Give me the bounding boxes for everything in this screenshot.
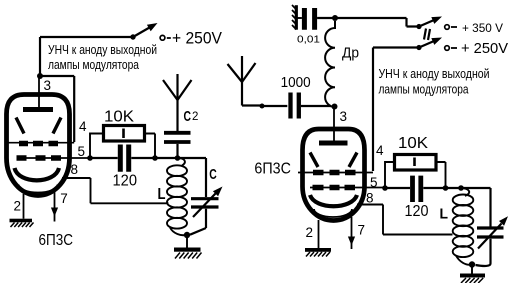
pin 7 heater lead with arrow (right): [351, 217, 353, 249]
svg-text:8: 8: [71, 162, 79, 177]
node: antenna wire dot (right): [260, 104, 265, 109]
svg-text:7: 7: [60, 191, 68, 206]
capacitor 120 (right): [385, 187, 446, 189]
wire: cap to supply node (right): [317, 17, 406, 19]
svg-text:7: 7: [358, 223, 366, 238]
svg-text:УНЧ к аноду выходной: УНЧ к аноду выходной: [48, 42, 157, 57]
svg-text:+ 250V: + 250V: [461, 40, 508, 57]
pin 2 lead (right): [318, 220, 320, 248]
switch SA1 terminal tick (left): [167, 37, 171, 39]
switch SA1 terminal circle (left): [160, 35, 165, 40]
resistor R2 10K (right): [385, 162, 395, 188]
wire: cathode pin 8 to coil tap (left): [62, 178, 169, 203]
control grid g1 row (left tube): [18, 157, 90, 159]
ground symbol (left tank): [186, 235, 188, 248]
switch SA1 pivot dot (left): [130, 34, 135, 39]
svg-text:0,01: 0,01: [297, 34, 320, 46]
svg-text:C: C: [209, 167, 217, 183]
svg-text:8: 8: [366, 191, 374, 206]
coil L (left): [178, 158, 185, 166]
svg-text:C: C: [184, 109, 192, 125]
node: anode supply junction (left): [37, 73, 43, 79]
svg-text:лампы модулятора: лампы модулятора: [379, 82, 470, 97]
switch SA2a lever: [419, 20, 434, 26]
wire: screen feed to pin 4 (left): [40, 76, 74, 142]
anode plate (left tube): [23, 107, 53, 112]
node: RF supply junction (right): [332, 15, 338, 21]
glass bottom arc (right tube): [314, 209, 352, 217]
svg-text:5: 5: [370, 175, 378, 190]
capacitor 0,01 (right): [296, 17, 302, 19]
resistor R1 10K (left): [90, 134, 104, 159]
chassis wall (right): [295, 5, 298, 30]
cathode (right tube): [310, 195, 357, 206]
switch SA2b terminal circle: [445, 46, 450, 51]
cathode (left tube): [15, 168, 60, 180]
capacitor 120 (left): [90, 157, 155, 159]
wire: antenna to coupling cap (right): [242, 104, 287, 107]
svg-text:10K: 10K: [104, 109, 135, 126]
capacitor 1000 (right): [291, 93, 299, 119]
wire: anode lead pin 3 (right): [333, 107, 335, 144]
ground symbol (left tube): [10, 219, 33, 223]
variable capacitor C (left): [191, 199, 219, 207]
wire: tank top to variable capacitor (left): [178, 158, 207, 197]
svg-text:2: 2: [306, 225, 314, 240]
coil L (right): [461, 188, 469, 196]
screen grid g2 row (left tube): [6, 142, 75, 144]
switch gang link (right): [424, 29, 430, 41]
switch SA2b lever: [419, 41, 434, 47]
svg-text:10K: 10K: [398, 135, 429, 152]
glass bottom arc (left tube): [19, 185, 58, 193]
svg-text:120: 120: [405, 203, 429, 220]
wire: to tank (right): [446, 188, 491, 227]
node: anode junction (right): [332, 104, 338, 110]
variable capacitor C (right): [477, 228, 504, 237]
beam plates (right tube): [310, 153, 357, 168]
svg-text:3: 3: [340, 109, 348, 124]
node: tank bottom junction (left): [184, 232, 190, 238]
ground symbol (right tube): [305, 248, 331, 252]
wire: +250V feed top (left): [40, 36, 133, 38]
node: tank top junction (right): [458, 185, 464, 191]
switch SA2b pivot dot (+250V): [416, 45, 421, 50]
choke Др (right): [325, 21, 335, 107]
wire: cathode pin 8 to coil tap (right): [357, 205, 453, 235]
svg-text:УНЧ к аноду выходной: УНЧ к аноду выходной: [379, 66, 490, 81]
switch SA2a terminal circle: [445, 25, 450, 30]
wire: anode lead pin 3 (left): [38, 76, 40, 110]
node: R/C right junction (left): [152, 155, 158, 161]
switch SA1 lever arrowhead (left): [147, 23, 158, 31]
tube V1 6П3С envelope (left): [7, 95, 70, 196]
svg-text:+ 350 V: + 350 V: [462, 21, 503, 35]
wire: supply drop (left): [39, 37, 41, 76]
svg-text:6П3С: 6П3С: [39, 232, 74, 249]
switch SA2a pivot dot (+350V): [416, 24, 421, 29]
node: tank top junction (left): [175, 155, 181, 161]
pin 7 heater lead with arrow (left): [54, 191, 56, 222]
svg-text:Др: Др: [342, 46, 359, 62]
node: grid junction pin 5 (left): [87, 155, 93, 161]
node: grid junction pin 5 (right): [382, 185, 388, 191]
antenna W1 (left): [176, 74, 178, 131]
wire: cap to anode node (right): [301, 105, 331, 107]
tube V2 6П3С envelope (right): [303, 129, 365, 221]
wire: step to switch (right): [407, 18, 420, 27]
svg-text:L: L: [440, 206, 449, 223]
svg-text:L: L: [158, 186, 166, 203]
wire: +250V to screen pin 4 (right): [373, 48, 419, 172]
svg-text:+ 250V: + 250V: [172, 30, 222, 48]
screen grid g2 row (right tube): [298, 172, 373, 174]
control grid g1 row (right tube): [310, 187, 385, 189]
svg-text:1000: 1000: [281, 75, 311, 91]
svg-text:2: 2: [192, 111, 198, 123]
node: R/C right junction (right): [443, 185, 449, 191]
wire: to tank top (left): [155, 157, 178, 159]
node: tank bottom junction (right): [469, 261, 475, 267]
pin 2 lead (left): [23, 194, 25, 219]
svg-text:2: 2: [14, 199, 22, 214]
svg-text:4: 4: [376, 143, 384, 158]
svg-text:4: 4: [79, 119, 87, 134]
svg-text:6П3С: 6П3С: [254, 160, 291, 177]
ground symbol (right tank): [471, 265, 473, 274]
switch SA1 lever (left): [133, 28, 150, 38]
svg-text:3: 3: [44, 78, 52, 93]
beam plates (left tube): [16, 118, 61, 134]
svg-text:лампы модулятора: лампы модулятора: [48, 57, 140, 72]
svg-text:120: 120: [113, 173, 138, 190]
svg-text:5: 5: [78, 144, 86, 159]
anode plate (right tube): [319, 141, 348, 146]
capacitor C2 (left): [164, 133, 191, 142]
antenna W2 (right): [241, 56, 243, 106]
